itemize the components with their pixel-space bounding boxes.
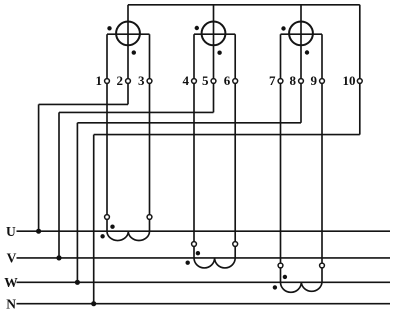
svg-text:10: 10 <box>343 73 356 88</box>
svg-text:9: 9 <box>311 73 318 88</box>
svg-text:7: 7 <box>269 73 276 88</box>
svg-text:U: U <box>6 224 16 239</box>
svg-text:1: 1 <box>96 73 103 88</box>
svg-text:5: 5 <box>202 73 209 88</box>
svg-text:3: 3 <box>138 73 145 88</box>
svg-text:V: V <box>7 251 17 266</box>
svg-text:2: 2 <box>117 73 124 88</box>
svg-text:8: 8 <box>290 73 297 88</box>
svg-text:6: 6 <box>224 73 231 88</box>
svg-text:W: W <box>4 275 18 290</box>
svg-text:4: 4 <box>183 73 190 88</box>
svg-text:N: N <box>6 296 16 311</box>
